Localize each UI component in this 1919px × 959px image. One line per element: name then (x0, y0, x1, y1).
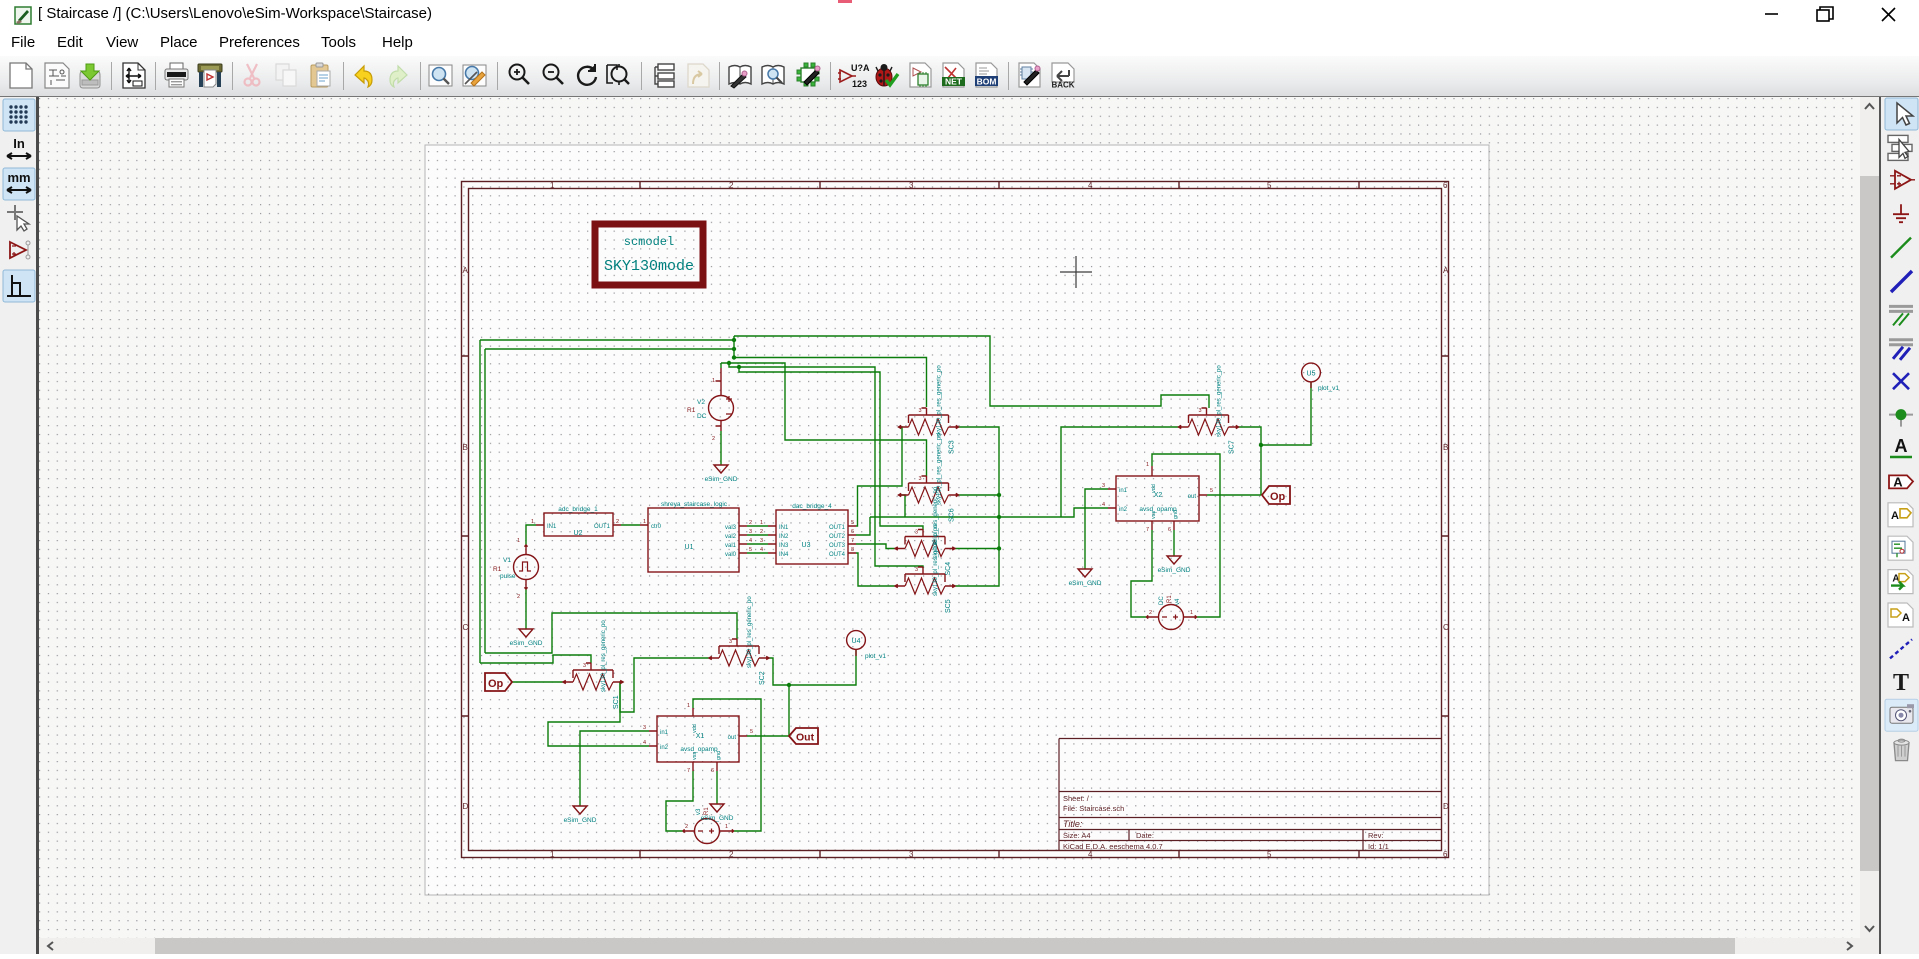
svg-text:IN1: IN1 (779, 525, 789, 531)
place wire (1891, 238, 1911, 258)
svg-text:BACK: BACK (1051, 81, 1074, 90)
resistor SC2 sky130_pl_res_generic_po (709, 596, 769, 685)
wire V1 to adc IN1 (526, 525, 536, 545)
global label Out (789, 728, 818, 744)
hierarchy navigator (655, 64, 674, 87)
svg-text:3: 3 (760, 538, 763, 544)
svg-text:SC4: SC4 (945, 562, 952, 576)
text (1893, 670, 1909, 696)
svg-text:4: 4 (760, 547, 763, 553)
svg-text:U1: U1 (685, 544, 694, 551)
delete item (1894, 739, 1909, 761)
svg-text:Op: Op (1270, 491, 1286, 503)
svg-text:OUT3: OUT3 (829, 543, 846, 549)
ground eSim_GND (X2 gnd) (1158, 556, 1191, 574)
wire X1 vss to V3 minus (666, 771, 693, 831)
svg-text:eSim_GND: eSim_GND (564, 817, 597, 824)
wire X2 gnd to ground (1173, 530, 1175, 556)
svg-text:sky130_pl_res_generic_po: sky130_pl_res_generic_po (747, 596, 753, 668)
svg-text:5: 5 (1267, 181, 1272, 190)
svg-text:7: 7 (687, 768, 690, 774)
svg-text:1: 1 (550, 850, 555, 859)
wire X1 out to Out label (747, 735, 789, 737)
svg-text:plot_v1: plot_v1 (865, 653, 886, 660)
svg-text:A: A (1902, 612, 1910, 624)
svg-text:2: 2 (616, 519, 619, 525)
resistor SC7 sky130_pl_res_generic_po (1179, 365, 1239, 454)
svg-text:T: T (1893, 670, 1909, 696)
svg-text:pulse: pulse (500, 573, 516, 580)
wire to SC1 body pin (480, 655, 591, 663)
undo (355, 66, 372, 87)
svg-text:1: 1 (760, 520, 763, 526)
svg-text:X1: X1 (696, 733, 705, 740)
svg-text:4: 4 (1102, 502, 1105, 508)
svg-text:adc_bridge_1: adc_bridge_1 (558, 506, 598, 513)
svg-text:V1: V1 (503, 557, 511, 564)
wire U1 val3 to dac IN1 (747, 525, 768, 527)
plot probe U4 plot_v1 (847, 631, 887, 660)
svg-text:R1: R1 (704, 807, 710, 815)
import sheet pin (1888, 603, 1913, 627)
wire SC6 left feed (899, 495, 906, 517)
plot (198, 64, 222, 87)
sheet border inner (469, 189, 1442, 851)
svg-text:3: 3 (919, 476, 922, 482)
svg-text:SKY130mode: SKY130mode (604, 258, 694, 275)
voltage source V2 (DC) (687, 368, 734, 442)
wire V2 to SC6 body pin (721, 363, 927, 476)
scmodel SKY130 annotation box (595, 224, 703, 285)
wire to SC2 body pin (485, 613, 737, 653)
svg-text:U2: U2 (574, 530, 583, 537)
svg-text:2: 2 (729, 850, 734, 859)
zoom in (510, 65, 530, 85)
wire to plot U5 (1261, 382, 1311, 445)
wire X2 in1 to ground (1085, 489, 1108, 569)
svg-text:1: 1 (712, 378, 715, 384)
svg-text:eSim_GND: eSim_GND (705, 476, 738, 483)
ground eSim_GND (X1 in1) (564, 806, 597, 824)
ground eSim_GND (X2 in1) (1069, 569, 1102, 587)
wire X1 gnd to ground (716, 771, 718, 804)
svg-text:123: 123 (852, 79, 867, 89)
svg-text:1: 1 (1190, 610, 1193, 616)
svg-text:OUT1: OUT1 (594, 524, 611, 530)
svg-text:A: A (1443, 266, 1449, 275)
netlist generate (910, 63, 931, 87)
wire Op label to SC1 left (512, 681, 563, 683)
svg-text:avsd_opamp: avsd_opamp (680, 746, 718, 753)
wire to plot U4 (789, 649, 856, 685)
find and replace (463, 65, 486, 86)
svg-text:3: 3 (909, 850, 914, 859)
resistor SC4 sky130_pl_res_generic_po (895, 486, 955, 575)
svg-text:6: 6 (851, 529, 854, 535)
net label (1890, 436, 1912, 457)
close (1882, 8, 1895, 21)
resistor SC6 sky130_pl_res_generic_po (899, 433, 959, 522)
svg-text:4: 4 (1088, 850, 1093, 859)
place component (1890, 171, 1915, 189)
global label Op (left) (485, 673, 512, 691)
svg-text:D: D (463, 802, 469, 811)
wire U1 val1 to dac IN3 (747, 543, 768, 545)
svg-text:DC: DC (697, 413, 707, 420)
assign footprints (1019, 63, 1040, 87)
wire left vertical bus1 (479, 340, 481, 663)
svg-text:gnd: gnd (716, 751, 722, 760)
svg-text:IN3: IN3 (779, 543, 789, 549)
svg-text:SC1: SC1 (613, 695, 620, 709)
svg-text:1: 1 (643, 519, 646, 525)
svg-text:SC5: SC5 (945, 599, 952, 613)
junction (1889, 409, 1913, 427)
svg-text:3: 3 (919, 408, 922, 414)
graphic line (1890, 639, 1912, 658)
svg-text:5: 5 (851, 520, 854, 526)
resistor SC1 sky130_pl_res_generic_po (563, 620, 623, 709)
svg-text:D: D (1443, 802, 1449, 811)
wire X2 out to Op label (1207, 494, 1261, 496)
svg-text:U5: U5 (1307, 371, 1316, 378)
svg-text:4: 4 (643, 740, 646, 746)
svg-text:vdd: vdd (1151, 484, 1157, 493)
voltage source V4 (1147, 595, 1197, 630)
resistor SC5 sky130_pl_res_generic_po (895, 524, 955, 613)
library editor (729, 66, 751, 89)
svg-text:3: 3 (583, 663, 586, 669)
maximize (1817, 7, 1833, 21)
bitmap image (1885, 699, 1918, 731)
svg-text:v4: v4 (1175, 598, 1181, 605)
junction dots (732, 338, 736, 342)
voltage source V3 (683, 807, 734, 844)
print (165, 63, 188, 87)
IC U2 adc_bridge_1 (531, 506, 621, 537)
HV orientation (selected) (3, 270, 35, 302)
place bus (1891, 271, 1912, 292)
find (429, 65, 452, 86)
svg-text:B: B (463, 443, 468, 452)
wire V2 to SC5 body pin (729, 363, 923, 568)
window title bar (0, 0, 1919, 30)
wire X2 vdd to V4 plus (1152, 454, 1220, 617)
zoom out (544, 65, 564, 85)
wire dac OUT2 up (856, 517, 870, 535)
svg-text:6: 6 (1443, 850, 1448, 859)
svg-text:U3: U3 (802, 542, 811, 549)
svg-text:val3: val3 (725, 525, 737, 531)
svg-text:A: A (1895, 436, 1908, 456)
svg-text:7: 7 (851, 538, 854, 544)
svg-text:2: 2 (517, 594, 520, 600)
svg-text:2: 2 (712, 436, 715, 442)
wire dac OUT4 to SC5 left (856, 553, 895, 586)
left toolbar (0, 97, 39, 954)
op-amp X1 avsd_opamp (643, 703, 753, 774)
sheet page (425, 145, 1489, 895)
svg-text:ctr0: ctr0 (651, 524, 662, 530)
svg-text:4: 4 (749, 538, 752, 544)
svg-text:Size: A4: Size: A4 (1063, 831, 1091, 840)
app icon (15, 7, 31, 24)
svg-text:IN1: IN1 (547, 524, 557, 530)
svg-text:DC: DC (1159, 596, 1165, 605)
pink artifact dot (838, 0, 852, 3)
svg-text:Out: Out (796, 732, 815, 744)
svg-text:eSim_GND: eSim_GND (1158, 567, 1191, 574)
redraw view (578, 64, 596, 85)
svg-text:SC2: SC2 (759, 671, 766, 685)
svg-text:3: 3 (749, 529, 752, 535)
wire top bus 1 to SC7 body pin (734, 336, 1209, 408)
svg-text:C: C (1443, 623, 1449, 632)
svg-text:KiCad E.D.A. eeschema 4.0.7: KiCad E.D.A. eeschema 4.0.7 (1063, 842, 1163, 851)
footprint editor (797, 63, 820, 86)
svg-text:5: 5 (1267, 850, 1272, 859)
svg-text:2: 2 (729, 181, 734, 190)
BOM file (975, 63, 998, 87)
svg-text:R1: R1 (1167, 595, 1173, 603)
vertical scrollbar (1860, 97, 1879, 938)
svg-text:R1: R1 (687, 407, 696, 414)
svg-text:5: 5 (750, 729, 753, 735)
hidden pins (op-amp) (10, 241, 30, 259)
svg-text:eSim_GND: eSim_GND (701, 815, 734, 822)
units inches (7, 136, 31, 159)
new sheet (10, 63, 32, 88)
svg-text:Title:: Title: (1063, 819, 1083, 829)
svg-text:sky130_pl_res_generic_po: sky130_pl_res_generic_po (601, 620, 607, 692)
wire summing node horizontal to X2 in2 (870, 508, 1108, 517)
place power port (1893, 204, 1909, 222)
wire SC1 right to SC2 left (620, 658, 709, 712)
svg-text:NET: NET (945, 77, 963, 87)
wire adc OUT1 to U1 ctr0 (621, 524, 640, 526)
svg-text:vss: vss (1151, 511, 1157, 520)
wire V2 to ground (720, 431, 722, 465)
svg-text:eSim_GND: eSim_GND (510, 640, 543, 647)
wire V2 to SC4 body pin (739, 367, 923, 530)
annotate (838, 63, 870, 89)
ground eSim_GND (X1 gnd) (701, 804, 734, 822)
svg-text:mm: mm (7, 170, 30, 185)
global label Op (right) (1262, 486, 1290, 504)
voltage source V1 (pulse) (493, 538, 539, 600)
svg-text:8: 8 (851, 547, 854, 553)
svg-text:eSim_GND: eSim_GND (1069, 580, 1102, 587)
svg-text:3: 3 (915, 530, 918, 536)
plot probe U5 plot_v1 (1302, 363, 1340, 392)
svg-text:3: 3 (729, 639, 732, 645)
IC U3 dac_bridge_4 (760, 503, 856, 564)
svg-text:A: A (1893, 474, 1903, 489)
ERC check (876, 64, 898, 86)
svg-text:in2: in2 (1119, 507, 1128, 513)
svg-text:Date:: Date: (1136, 831, 1154, 840)
svg-text:3: 3 (1199, 408, 1202, 414)
NET file (942, 63, 965, 87)
title block (1059, 739, 1442, 851)
save (80, 64, 100, 88)
svg-text:Id: 1/1: Id: 1/1 (1368, 842, 1389, 851)
open sheet (45, 63, 69, 88)
horizontal scrollbar (39, 938, 1860, 954)
svg-text:U4: U4 (852, 638, 861, 645)
svg-text:1: 1 (687, 703, 690, 709)
svg-text:sky130_pl_res_generic_po: sky130_pl_res_generic_po (933, 524, 939, 596)
svg-text:scmodel: scmodel (624, 235, 674, 249)
page settings (123, 63, 145, 88)
wire X1 in2 tap (548, 682, 649, 746)
resistor SC3 sky130_pl_res_generic_po (899, 365, 959, 454)
svg-text:OUT1: OUT1 (829, 525, 846, 531)
svg-text:1: 1 (725, 824, 728, 830)
svg-text:OUT2: OUT2 (829, 534, 846, 540)
svg-text:B: B (1443, 443, 1448, 452)
cursor shape (7, 205, 29, 231)
svg-text:in1: in1 (1119, 488, 1128, 494)
svg-text:sky130_pl_res_generic_po: sky130_pl_res_generic_po (1217, 365, 1223, 437)
paste (311, 63, 330, 87)
svg-text:3: 3 (1102, 483, 1105, 489)
ground eSim_GND (under V1) (510, 629, 543, 647)
svg-text:IN4: IN4 (779, 552, 789, 558)
wire U1 val2 to dac IN2 (747, 534, 768, 536)
svg-text:5: 5 (749, 547, 752, 553)
svg-text:A: A (463, 266, 469, 275)
wire SC6 right (959, 494, 1000, 496)
svg-text:1: 1 (531, 519, 534, 525)
wire SC4 right (955, 548, 999, 550)
svg-text:6: 6 (711, 768, 714, 774)
svg-text:out: out (1188, 494, 1197, 500)
hierarchy sheets tool (1888, 135, 1912, 160)
wire dac OUT1 to SC3 left (856, 427, 902, 526)
svg-text:SC7: SC7 (1229, 440, 1236, 454)
svg-text:1: 1 (1146, 462, 1149, 468)
units mm (selected) (3, 168, 35, 200)
svg-text:SC6: SC6 (949, 508, 956, 522)
svg-text:Op: Op (488, 678, 504, 690)
wire V2 top stem (720, 363, 722, 368)
svg-text:SC3: SC3 (949, 440, 956, 454)
svg-text:out: out (728, 735, 737, 741)
hierarchical label (1888, 503, 1913, 527)
cut (disabled) (245, 64, 260, 86)
svg-text:C: C (463, 623, 469, 632)
svg-text:7: 7 (1146, 527, 1149, 533)
svg-text:vdd: vdd (692, 724, 698, 733)
back annotate (1051, 63, 1074, 90)
wire X1 in1 to ground (580, 731, 649, 806)
wire V1 to ground (525, 589, 527, 629)
no connect flag (1893, 373, 1909, 389)
svg-text:6: 6 (1168, 527, 1171, 533)
grid toggle (selected) (3, 99, 35, 131)
IC U1 shreya_staircase_logic (640, 501, 752, 572)
svg-text:shreya_staircase_logic: shreya_staircase_logic (661, 501, 728, 508)
svg-text:5: 5 (1210, 488, 1213, 494)
svg-text:U?A: U?A (851, 63, 870, 73)
menu bar (0, 30, 1919, 56)
minimize (1765, 13, 1778, 15)
svg-text:V2: V2 (697, 399, 705, 406)
top toolbar (0, 56, 1919, 98)
copy (disabled) (276, 64, 296, 86)
redo (disabled) (390, 66, 407, 87)
svg-text:2: 2 (749, 520, 752, 526)
svg-text:1: 1 (550, 181, 555, 190)
svg-text:In: In (13, 136, 25, 151)
ground eSim_GND (under V2) (705, 465, 738, 483)
wire junction vertical (733, 336, 735, 358)
svg-text:in1: in1 (660, 730, 669, 736)
wire X1 vdd to V3 plus (693, 699, 761, 831)
zoom to fit (607, 64, 629, 85)
svg-text:v3: v3 (696, 808, 702, 815)
svg-text:IN2: IN2 (779, 534, 789, 540)
svg-text:val0: val0 (725, 552, 737, 558)
leave sheet (disabled) (688, 64, 709, 87)
right toolbar (1879, 97, 1919, 954)
svg-text:3: 3 (909, 181, 914, 190)
svg-text:2: 2 (685, 824, 688, 830)
select cursor (active) (1885, 98, 1918, 130)
wire right vertical SC3-SC5 (955, 427, 999, 586)
svg-text:OUT4: OUT4 (829, 552, 846, 558)
place sheet pin (1888, 570, 1913, 594)
svg-text:val2: val2 (725, 534, 737, 540)
wire dac OUT3 to SC4 left (856, 544, 895, 549)
svg-text:plot_v1: plot_v1 (1318, 385, 1339, 392)
svg-text:gnd: gnd (1173, 510, 1179, 519)
row ticks left/right (462, 356, 469, 716)
svg-text:val1: val1 (725, 543, 737, 549)
mouse crosshair cursor (1060, 256, 1092, 288)
sheet border outer (462, 182, 1449, 858)
wire top bus left segment 1 (480, 339, 734, 341)
import hierarchical sheet (1888, 536, 1913, 560)
svg-text:dac_bridge_4: dac_bridge_4 (792, 503, 832, 510)
svg-text:sky130_pl_res_generic_po: sky130_pl_res_generic_po (937, 365, 943, 437)
svg-text:BOM: BOM (977, 77, 997, 87)
svg-text:A: A (1891, 510, 1899, 522)
svg-text:File: Staircase.sch: File: Staircase.sch (1063, 804, 1124, 813)
column ticks top/bottom (640, 182, 1359, 189)
svg-text:Sheet: /: Sheet: / (1063, 794, 1090, 803)
svg-text:4: 4 (1088, 181, 1093, 190)
svg-text:3: 3 (643, 725, 646, 731)
svg-text:Rev:: Rev: (1368, 831, 1383, 840)
op-amp X2 avsd_opamp (1102, 462, 1213, 533)
bus to bus entry (1889, 340, 1913, 360)
svg-text:2: 2 (760, 529, 763, 535)
svg-text:vss: vss (692, 752, 698, 761)
wire SC7 left to node (1061, 427, 1179, 517)
svg-text:6: 6 (1443, 181, 1448, 190)
svg-text:2: 2 (1149, 610, 1152, 616)
svg-text:avsd_opamp: avsd_opamp (1139, 506, 1177, 513)
wire SC7 right to Op (1239, 427, 1262, 495)
wire U1 val0 to dac IN4 (747, 552, 768, 554)
wire top bus left segment 2 (485, 348, 734, 350)
global label (1889, 474, 1913, 489)
svg-text:R1: R1 (493, 566, 502, 573)
wire SC2 right to out node (769, 658, 789, 736)
svg-text:in2: in2 (660, 745, 669, 751)
